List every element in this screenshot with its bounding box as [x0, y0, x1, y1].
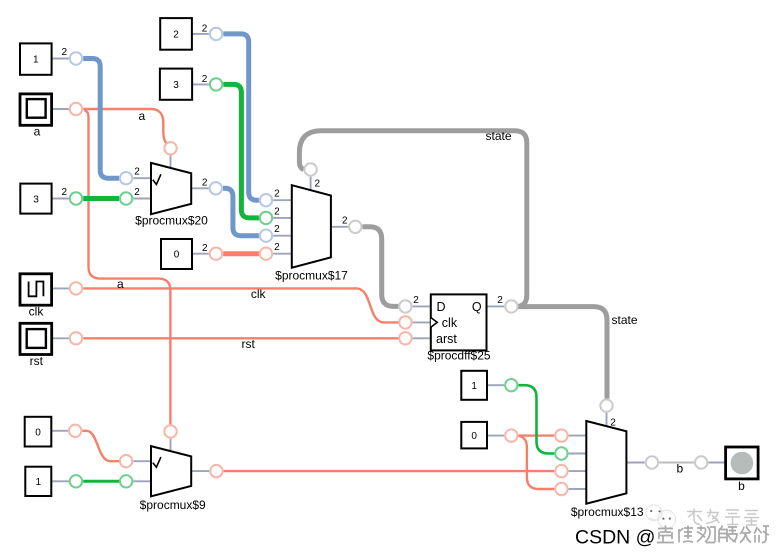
- svg-text:3: 3: [173, 80, 179, 91]
- svg-text:1: 1: [471, 381, 477, 392]
- stub $procmux$9 output: [191, 470, 209, 472]
- svg-text:2: 2: [274, 206, 280, 217]
- svg-text:b: b: [738, 479, 745, 493]
- svg-text:Q: Q: [472, 300, 482, 314]
- input box clk: [20, 274, 52, 319]
- constant box 2 (top): [160, 18, 192, 50]
- svg-text:1: 1: [36, 477, 42, 488]
- svg-text:2: 2: [134, 167, 140, 178]
- stub $procdff$25 Q: [487, 305, 505, 307]
- svg-text:2: 2: [274, 242, 280, 253]
- constant box 3 (left): [20, 184, 51, 214]
- stub $procmux$20 input B: [133, 198, 151, 200]
- constant box 3 (top): [160, 69, 192, 100]
- stub $procmux$13 input A: [569, 435, 587, 437]
- svg-text:2: 2: [497, 295, 503, 306]
- watermark text 飞多学堂 (vector pseudo-glyphs): [687, 509, 759, 526]
- port circle const 1 right (green): [505, 379, 517, 391]
- svg-text:arst: arst: [436, 332, 457, 346]
- stub $procmux$20 output: [191, 187, 208, 189]
- wire bus: $procmux$20 output to $procmux$17 input C: [223, 188, 259, 235]
- svg-text:1: 1: [33, 54, 39, 65]
- svg-text:state: state: [612, 313, 638, 327]
- mux $procmux$9: [140, 446, 206, 512]
- port circle const 1 top-left (blue): [70, 52, 82, 64]
- constant box 1 (right): [461, 371, 487, 400]
- svg-text:2: 2: [202, 178, 208, 189]
- mux $procmux$20: [135, 163, 208, 228]
- constant box 1 (top-left): [20, 43, 52, 74]
- wire bus: $procmux$17 output to $procdff$25 D: [363, 227, 399, 307]
- svg-text:2: 2: [202, 74, 208, 85]
- port circle $procmux$20 input B (green): [120, 192, 132, 204]
- port circle $procmux$20 input A (blue): [120, 172, 132, 184]
- wire net a: branch down to $procmux$9 select: [85, 110, 171, 424]
- dff $procdff$25: [427, 294, 490, 362]
- wire bus state: $procdff$25 Q to $procmux$13 select: [519, 307, 607, 399]
- svg-text:clk: clk: [442, 316, 458, 330]
- stub $procmux$17 input C: [273, 235, 292, 237]
- mux $procmux$13: [571, 421, 644, 519]
- stub $procmux$20 input A: [133, 177, 151, 179]
- svg-text:2: 2: [342, 215, 348, 226]
- port circle clk (salmon): [70, 282, 82, 294]
- constant box 0 (mid): [161, 239, 192, 269]
- stub $procmux$17 select: [310, 177, 312, 191]
- svg-text:$procmux$9: $procmux$9: [140, 498, 206, 512]
- stub $procmux$17 output: [331, 226, 348, 228]
- stub $procmux$17 input A: [273, 199, 292, 201]
- port circle $procmux$17 input B (green): [260, 212, 272, 224]
- svg-text:a: a: [34, 124, 41, 138]
- port circle const 3 left (green): [70, 192, 82, 204]
- PORTS_LAYER: [69, 28, 707, 495]
- port circle $procmux$17 input D (salmon): [260, 248, 272, 260]
- wire: $procmux$9 output to $procmux$13 input C: [224, 470, 555, 472]
- stub $procmux$9 select: [170, 439, 172, 452]
- wire: const 0 right branch to $procmux$13 input D: [519, 436, 554, 489]
- stub const 0 mid: [192, 253, 209, 255]
- port circle $procmux$20 select (salmon): [164, 142, 176, 154]
- stub input a: [52, 108, 69, 110]
- wire net b: $procmux$13 output to output box b: [659, 462, 694, 464]
- svg-text:clk: clk: [251, 287, 267, 301]
- svg-text:2: 2: [610, 417, 616, 428]
- wire: const 1 right to $procmux$13 input B: [519, 385, 555, 453]
- stub const 3 left: [52, 198, 69, 200]
- port circle const 3 top (green): [210, 78, 222, 90]
- stub $procmux$13 select: [606, 413, 608, 427]
- input box rst: [20, 323, 52, 368]
- svg-text:3: 3: [33, 194, 39, 205]
- port circle $procdff$25 Q (gray): [505, 300, 517, 312]
- stub $procmux$13 input C: [569, 470, 587, 472]
- stub $procmux$9 input B: [133, 480, 151, 482]
- svg-text:a: a: [139, 109, 146, 123]
- stub const 0 bottom-left: [51, 430, 68, 432]
- wire: const 1 bottom-left to $procmux$9 input B: [83, 480, 119, 483]
- WIRES_LAYER: [82, 34, 694, 489]
- port circle input a (salmon): [70, 103, 82, 115]
- stub $procmux$17 input B: [273, 217, 292, 219]
- stub const 3 top: [192, 83, 209, 85]
- stub const 1 bottom-left: [51, 480, 69, 482]
- stub clk box: [52, 287, 69, 289]
- wire net rst: rst box to $procdff$25 arst: [83, 337, 398, 339]
- svg-text:0: 0: [174, 250, 180, 261]
- svg-text:2: 2: [134, 187, 140, 198]
- svg-text:a: a: [117, 277, 124, 291]
- stub output box b: [708, 462, 725, 464]
- svg-text:2: 2: [274, 224, 280, 235]
- svg-text:b: b: [677, 461, 684, 475]
- wire bus: const 1 to $procmux$20 input A: [83, 59, 119, 179]
- wire bus: const 3 top to $procmux$17 input B: [223, 84, 259, 218]
- svg-text:D: D: [437, 300, 446, 314]
- svg-text:$procdff$25: $procdff$25: [427, 349, 490, 363]
- svg-text:0: 0: [471, 431, 477, 442]
- stub $procdff$25 D: [413, 305, 431, 307]
- svg-text:2: 2: [274, 189, 280, 200]
- stub $procmux$17 input D: [273, 253, 292, 255]
- stub const 0 right: [487, 435, 504, 437]
- port circle output b (gray): [695, 456, 707, 468]
- svg-text:2: 2: [173, 30, 179, 41]
- constant box 0 (right): [461, 422, 487, 449]
- svg-text:$procmux$20: $procmux$20: [135, 214, 208, 228]
- wire bus: const 3 left to $procmux$20 input B: [83, 196, 119, 201]
- input box a: [20, 94, 52, 138]
- stub $procmux$13 input D: [569, 488, 587, 490]
- mux $procmux$17: [275, 185, 348, 282]
- wire bus: const 2 to $procmux$17 input A: [223, 34, 259, 200]
- port circle $procmux$17 input A (blue): [260, 194, 272, 206]
- svg-text:state: state: [486, 129, 512, 143]
- svg-text:$procmux$17: $procmux$17: [275, 268, 348, 282]
- wire net a: box a to $procmux$20 select: [83, 109, 167, 144]
- port circle $procmux$13 input B (green): [555, 447, 567, 459]
- constant box 0 (bottom-left): [25, 417, 52, 447]
- constant box 1 (bottom-left): [25, 467, 51, 496]
- svg-text:CSDN @: CSDN @: [575, 527, 655, 549]
- port circle const 0 right (salmon): [505, 429, 517, 441]
- port circle $procmux$17 input C (blue): [260, 230, 272, 242]
- wire bus: const 0 mid to $procmux$17 input D: [223, 251, 259, 256]
- port circle $procmux$9 output (salmon): [210, 465, 222, 477]
- output box b: [726, 447, 759, 493]
- port circle $procmux$17 select (gray): [304, 163, 316, 175]
- port circle $procdff$25 D (gray): [399, 300, 411, 312]
- port circle $procmux$13 input C (salmon): [555, 465, 567, 477]
- port circle $procmux$17 output (gray): [349, 221, 361, 233]
- svg-text:2: 2: [315, 178, 321, 189]
- port circle $procmux$9 input B (green): [120, 475, 132, 487]
- stub $procdff$25 arst: [413, 337, 431, 339]
- port circle $procmux$13 select (gray): [600, 400, 612, 412]
- stub const 2 top: [192, 33, 209, 35]
- svg-text:$procmux$13: $procmux$13: [571, 505, 644, 519]
- watermark stamp logo: [646, 505, 676, 528]
- port circle const 0 mid (salmon): [210, 248, 222, 260]
- port circle const 0 bottom-left (salmon): [69, 425, 81, 437]
- stub $procmux$13 output: [626, 462, 644, 464]
- svg-text:2: 2: [413, 295, 419, 306]
- svg-text:rst: rst: [30, 354, 44, 368]
- stub rst box: [52, 337, 69, 339]
- wire: const 0 right to $procmux$13 input A: [519, 434, 555, 436]
- stub $procmux$20 select: [170, 156, 172, 169]
- watermark text 黄埔数据分析 (vector pseudo-glyphs): [657, 526, 769, 543]
- port circle $procmux$13 input D (salmon): [555, 483, 567, 495]
- port circle $procmux$13 output (gray): [646, 456, 658, 468]
- stub const 1 right: [487, 384, 504, 386]
- svg-text:2: 2: [62, 187, 68, 198]
- wire net clk: clk box to $procdff$25 clk: [83, 288, 398, 322]
- port circle $procdff$25 arst (salmon): [399, 332, 411, 344]
- port circle const 1 bottom-left (green): [70, 475, 82, 487]
- stub const 1 top-left: [52, 58, 69, 60]
- STUBS_LAYER: [51, 34, 725, 489]
- svg-text:clk: clk: [29, 305, 45, 319]
- stub $procmux$13 input B: [569, 453, 587, 455]
- port circle $procmux$9 input A (salmon): [120, 455, 132, 467]
- port circle rst (salmon): [70, 332, 82, 344]
- svg-text:2: 2: [202, 23, 208, 34]
- port circle $procmux$9 select (salmon): [164, 425, 176, 437]
- wire: const 0 to $procmux$9 input A: [82, 431, 119, 461]
- stub $procmux$9 input A: [133, 460, 151, 462]
- port circle $procmux$13 input A (salmon): [555, 429, 567, 441]
- stub $procdff$25 clk: [413, 321, 431, 323]
- svg-text:2: 2: [202, 243, 208, 254]
- port circle $procmux$20 output (blue): [210, 182, 222, 194]
- wire bus state: $procdff$25 Q loop back to $procmux$17 select: [299, 131, 526, 307]
- svg-text:rst: rst: [242, 337, 256, 351]
- svg-text:0: 0: [35, 427, 41, 438]
- port circle $procdff$25 clk (salmon): [399, 316, 411, 328]
- port circle const 2 top (blue): [210, 28, 222, 40]
- svg-text:2: 2: [62, 47, 68, 58]
